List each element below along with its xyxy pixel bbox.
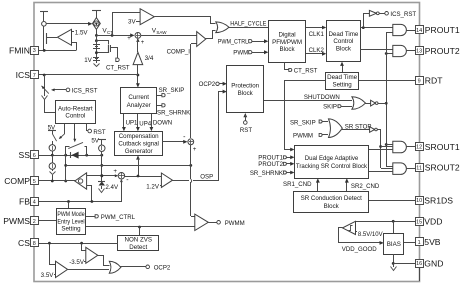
- svg-text:SR1DS: SR1DS: [424, 196, 453, 206]
- svg-text:16: 16: [416, 261, 422, 267]
- pin FB 4: [19, 197, 38, 207]
- wire SR1DS: [369, 200, 415, 202]
- wire 5VB: [404, 242, 415, 244]
- wire clamp chain: [100, 155, 103, 181]
- pad PROUT2 b: [258, 161, 294, 168]
- label CT_RST b: [294, 67, 318, 74]
- supply 5V b: [91, 138, 106, 145]
- block Dual Edge SR Control: [295, 146, 369, 179]
- pad ICS_RST a: [51, 88, 70, 92]
- wire G2 in2: [385, 52, 393, 55]
- block BIAS: [384, 234, 404, 255]
- svg-text:1.5V: 1.5V: [75, 29, 89, 36]
- label HALF_CYCLE: [230, 21, 266, 28]
- wire CT_RST gate: [117, 48, 119, 58]
- svg-text:OSP: OSP: [200, 174, 213, 181]
- svg-text:SR_SHRNK: SR_SHRNK: [157, 109, 190, 116]
- pin SS 6: [19, 150, 39, 160]
- svg-text:PROUT2: PROUT2: [258, 161, 283, 168]
- wire OCP2 out: [120, 265, 150, 269]
- or gate OR3: [329, 119, 343, 138]
- svg-text:ICS: ICS: [16, 70, 31, 80]
- svg-text:SS: SS: [19, 150, 31, 160]
- error amp A3: [75, 173, 87, 189]
- svg-text:SR_SHRNK: SR_SHRNK: [250, 170, 283, 177]
- pin GND 16: [416, 258, 444, 268]
- wire G4 out: [406, 168, 415, 170]
- svg-text:SR_SKIP: SR_SKIP: [290, 119, 316, 126]
- svg-text:OCP2: OCP2: [154, 264, 171, 271]
- pad PWM a: [233, 49, 268, 56]
- pad SR_SKIP a: [157, 94, 165, 97]
- block SR Conduction Detect: [294, 192, 369, 213]
- wire bias top: [393, 221, 395, 233]
- wire SS-COMP link: [64, 155, 67, 182]
- wire CT_RST stub: [285, 63, 292, 72]
- wire COMP_I trunk: [191, 44, 196, 217]
- svg-text:+: +: [127, 36, 131, 42]
- wire CLK2: [306, 52, 326, 56]
- svg-text:RDT: RDT: [425, 76, 443, 86]
- diode 2.4V D3: [98, 181, 105, 192]
- svg-text:Compensation: Compensation: [119, 133, 159, 140]
- wire to NONZVS: [139, 227, 141, 236]
- svg-text:5V: 5V: [91, 138, 99, 145]
- label V_CT: [102, 27, 113, 35]
- label VDD_GOOD: [342, 246, 377, 253]
- svg-text:Cutback signal: Cutback signal: [118, 140, 159, 147]
- svg-text:Block: Block: [279, 46, 295, 53]
- svg-text:FMIN: FMIN: [9, 46, 30, 56]
- IC boundary: [34, 3, 420, 282]
- svg-text:8: 8: [33, 241, 36, 247]
- pad PWM_CTRL b: [86, 215, 98, 218]
- svg-text:14: 14: [416, 28, 422, 34]
- svg-text:+: +: [193, 146, 197, 153]
- wire VSAW: [141, 35, 197, 37]
- comparator U4: [197, 32, 206, 47]
- label DOWN: [153, 120, 172, 127]
- svg-text:13: 13: [416, 49, 422, 55]
- current source I3: [99, 145, 105, 155]
- wire G3 in3: [368, 149, 393, 151]
- or gate OR2: [352, 97, 366, 110]
- svg-text:Protection: Protection: [231, 83, 259, 90]
- label RST a: [93, 129, 105, 136]
- svg-text:+: +: [141, 40, 145, 46]
- label 2.4V: [105, 184, 119, 191]
- block Compensation: [115, 132, 163, 156]
- wire CS to U7: [50, 244, 56, 265]
- block NON ZVS Detect: [118, 236, 159, 251]
- label UP4: [139, 121, 151, 128]
- svg-text:1: 1: [418, 240, 421, 246]
- wire VCT to 3V comp: [113, 13, 141, 36]
- pin PROUT1 14: [416, 25, 460, 35]
- wire ICS: [38, 74, 138, 77]
- wire pwm level: [86, 226, 195, 229]
- svg-text:UP4: UP4: [139, 121, 151, 128]
- wire U7 out: [68, 269, 109, 271]
- wire AR out2: [73, 124, 76, 142]
- switch ICS_RST S1: [42, 75, 49, 96]
- label V_SAW: [152, 28, 167, 36]
- diode D2: [71, 152, 79, 159]
- wire to auto-restart: [42, 96, 56, 113]
- supply 5V a: [48, 125, 56, 135]
- switch M_CT: [95, 39, 118, 53]
- label OSP: [200, 174, 213, 181]
- wire bias gnd: [392, 254, 415, 265]
- block Auto-Restart Control: [56, 101, 96, 124]
- wire 3V out: [155, 17, 216, 24]
- and gate G3: [393, 141, 407, 153]
- svg-text:CLK1: CLK1: [309, 31, 325, 38]
- wire RDT: [359, 80, 415, 82]
- svg-text:2.4V: 2.4V: [105, 184, 119, 191]
- label SR2_CND: [351, 183, 380, 190]
- pin ICS 7: [16, 70, 39, 80]
- label CLK1: [309, 31, 325, 38]
- wire I1 to SS: [52, 151, 54, 155]
- svg-text:Setting: Setting: [61, 226, 81, 233]
- wire CS to U6: [82, 244, 86, 251]
- label 3/4: [145, 55, 154, 62]
- svg-text:PWM_CTRL: PWM_CTRL: [101, 214, 136, 221]
- label SR1_CND: [283, 181, 312, 188]
- svg-text:SKIP: SKIP: [323, 103, 337, 110]
- svg-text:15: 15: [416, 219, 422, 225]
- svg-text:SROUT2: SROUT2: [425, 163, 460, 173]
- label 1V: [84, 57, 92, 64]
- wire SR1_CND: [316, 178, 320, 191]
- svg-text:Analyzer: Analyzer: [127, 102, 151, 109]
- supply rail bar 2: [92, 11, 101, 19]
- block Protection: [227, 66, 264, 113]
- wire FB to PWM box: [68, 202, 70, 208]
- svg-text:-3.5V: -3.5V: [69, 259, 85, 266]
- switch S2: [52, 134, 56, 145]
- wire G1 out: [406, 30, 415, 32]
- wire DOWN: [150, 114, 154, 131]
- svg-text:RST: RST: [240, 127, 252, 134]
- wire CS: [38, 242, 118, 245]
- wire srstop trunk: [379, 130, 393, 169]
- wire DTS up: [340, 62, 344, 72]
- summing node S0: [127, 33, 145, 46]
- wire HALF_CYCLE: [229, 27, 268, 29]
- svg-text:RST: RST: [93, 129, 105, 136]
- wire A1 feedback: [72, 43, 77, 51]
- transistor Q1: [44, 26, 58, 50]
- svg-text:10: 10: [416, 198, 422, 204]
- op-amp 1.5V A1: [57, 29, 74, 45]
- svg-text:2: 2: [33, 219, 36, 225]
- wire DTC out2: [360, 49, 393, 51]
- svg-text:5: 5: [33, 179, 36, 185]
- svg-text:9: 9: [418, 78, 421, 84]
- pin 5VB 1: [416, 237, 441, 247]
- pin PWMS 2: [3, 216, 38, 226]
- pin CS 8: [18, 238, 38, 248]
- pad RST b: [243, 113, 247, 124]
- label 3.5V: [41, 272, 55, 279]
- svg-text:Dead Time: Dead Time: [327, 74, 357, 81]
- pin SROUT2 11: [416, 163, 460, 173]
- label -3.5V: [69, 259, 85, 266]
- ground: [391, 263, 397, 271]
- wire UP1: [122, 114, 126, 131]
- svg-text:SHUTDOWN: SHUTDOWN: [304, 94, 340, 101]
- wire A3 top out: [87, 174, 118, 177]
- block Dead Time Control: [327, 21, 361, 62]
- wire UP4: [136, 114, 140, 131]
- svg-text:3: 3: [33, 48, 36, 54]
- svg-text:COMP: COMP: [4, 176, 30, 186]
- wire FB to S2: [120, 179, 123, 202]
- pin SROUT1 12: [416, 142, 460, 152]
- svg-text:1V: 1V: [84, 57, 92, 64]
- wire AR out3 RST: [87, 124, 92, 133]
- svg-text:Generator: Generator: [125, 148, 153, 155]
- svg-text:Block: Block: [336, 45, 352, 52]
- pin RDT 9: [416, 76, 444, 86]
- svg-text:4: 4: [33, 199, 36, 205]
- wire DTS left: [285, 81, 326, 152]
- wire FMIN: [38, 49, 76, 52]
- or gate OR1: [216, 22, 229, 33]
- wire G4 in3: [368, 171, 393, 173]
- and gate G1: [393, 24, 407, 35]
- wire OSP: [172, 90, 227, 181]
- svg-text:PFM/PWM: PFM/PWM: [272, 39, 302, 46]
- wire gate-enable trunk: [385, 33, 393, 167]
- inverter ICS_RST: [364, 10, 389, 27]
- svg-text:8.5V/10V: 8.5V/10V: [358, 232, 383, 238]
- svg-text:PWM: PWM: [233, 49, 248, 56]
- svg-text:UP1: UP1: [126, 120, 138, 127]
- svg-text:HALF_CYCLE: HALF_CYCLE: [230, 21, 266, 28]
- supply rail bar: [40, 12, 48, 22]
- label ICS_RST a: [72, 87, 98, 94]
- wire U4 out: [206, 31, 216, 39]
- current source I_CT: [93, 18, 101, 30]
- wire VDD_GOOD: [339, 228, 384, 245]
- svg-text:11: 11: [416, 165, 422, 171]
- block PWM Mode Entry: [57, 209, 86, 235]
- svg-text:SR1_CND: SR1_CND: [283, 181, 312, 188]
- pin VDD 15: [416, 217, 443, 227]
- pad PWM_CTRL a: [218, 38, 269, 45]
- svg-text:VDD_GOOD: VDD_GOOD: [342, 246, 377, 253]
- block Digital PFM/PWM: [269, 21, 306, 63]
- label SR_SKIP a: [159, 87, 185, 94]
- switch S3: [66, 142, 87, 155]
- svg-text:CT_RST: CT_RST: [294, 67, 318, 74]
- svg-text:Setting: Setting: [332, 82, 352, 89]
- wire SHUTDOWN: [264, 100, 352, 102]
- comparator -3.5V U6: [84, 247, 98, 263]
- svg-text:SR_SKIP: SR_SKIP: [159, 87, 185, 94]
- pin FMIN 3: [9, 46, 39, 56]
- summing node S2: [113, 168, 129, 184]
- pin SR1DS 10: [416, 196, 454, 206]
- comparator 3.5V U7: [54, 261, 68, 277]
- svg-text:7: 7: [33, 73, 36, 79]
- pad SR_SHRNK a: [157, 104, 165, 107]
- svg-text:6: 6: [33, 153, 36, 159]
- svg-text:VDD: VDD: [424, 217, 442, 227]
- wire GND down: [419, 267, 421, 281]
- wire AR out1: [59, 124, 65, 139]
- wire FB: [38, 200, 121, 203]
- pin PROUT2 13: [416, 46, 460, 56]
- svg-text:PWMM: PWMM: [293, 133, 313, 140]
- wire G2 out: [406, 50, 415, 52]
- svg-text:Block: Block: [238, 90, 254, 97]
- svg-text:5VB: 5VB: [424, 237, 441, 247]
- block Current Analyzer: [121, 88, 157, 114]
- pad OCP2 a: [199, 81, 227, 88]
- svg-text:Current: Current: [128, 94, 149, 101]
- svg-text:Block: Block: [324, 203, 340, 210]
- label CT_RST: [106, 64, 130, 71]
- svg-text:NON ZVS: NON ZVS: [124, 237, 152, 244]
- svg-text:+: +: [113, 168, 117, 175]
- pad PWMM b: [293, 133, 328, 140]
- svg-text:DOWN: DOWN: [153, 120, 172, 127]
- wire G3 out: [406, 146, 415, 148]
- svg-text:Entry Level: Entry Level: [57, 218, 84, 225]
- current mirror M1: [42, 22, 47, 27]
- svg-text:PWMM: PWMM: [225, 220, 245, 227]
- comparator 1.2V U3: [160, 173, 173, 187]
- wire trunk to comp: [191, 43, 197, 45]
- wire COMP feed: [66, 164, 192, 167]
- pad PROUT1 b: [258, 155, 294, 162]
- svg-text:COMP_I: COMP_I: [167, 49, 191, 56]
- and gate G4: [393, 163, 407, 175]
- wire VCT stem: [95, 29, 98, 37]
- svg-text:Dual Edge Adaptive: Dual Edge Adaptive: [305, 155, 359, 162]
- svg-text:3V: 3V: [128, 18, 136, 25]
- svg-text:GND: GND: [424, 258, 443, 268]
- svg-text:ICS_RST: ICS_RST: [390, 11, 416, 18]
- current source I2: [49, 155, 55, 181]
- summing node S1: [183, 134, 197, 153]
- wire 3/4 to ICS: [136, 65, 140, 88]
- wire G3 in2: [381, 146, 393, 148]
- label COMP_I: [167, 49, 191, 56]
- svg-text:12: 12: [416, 145, 422, 151]
- wire S2 out: [125, 176, 161, 178]
- svg-text:Control: Control: [65, 113, 85, 120]
- svg-text:Detect: Detect: [129, 244, 147, 251]
- label RST b: [240, 127, 252, 134]
- pad SR_SHRNK b: [250, 170, 295, 177]
- label UP1: [126, 120, 138, 127]
- svg-text:SR2_CND: SR2_CND: [351, 183, 380, 190]
- svg-text:1.2V: 1.2V: [146, 184, 160, 191]
- svg-text:Digital: Digital: [278, 32, 295, 39]
- wire comp out: [162, 140, 188, 144]
- label 1.2V: [146, 184, 160, 191]
- svg-text:CS: CS: [18, 238, 30, 248]
- wire CLK1: [306, 26, 326, 30]
- wire VDD: [356, 220, 415, 223]
- svg-text:Control: Control: [333, 38, 353, 45]
- label 3V: [128, 18, 136, 25]
- label PWM_CTRL b: [101, 214, 136, 221]
- svg-text:PWM_CTRL: PWM_CTRL: [218, 38, 249, 45]
- inverter N3: [342, 127, 381, 133]
- svg-text:SAW: SAW: [156, 30, 167, 35]
- label 8.5V/10V: [358, 232, 383, 238]
- comparator wire S2-U3 junction: [137, 175, 140, 178]
- svg-text:CT_RST: CT_RST: [106, 64, 130, 71]
- wire DTC out1: [360, 26, 393, 29]
- ground arrow VCT: [94, 61, 100, 67]
- zener 1V D1: [93, 35, 100, 61]
- comparator PWMM U5: [195, 214, 209, 230]
- label OCP2 b: [154, 264, 171, 271]
- pad SKIP: [323, 103, 352, 110]
- amp 3/4 A2: [133, 39, 143, 65]
- svg-text:OCP2: OCP2: [199, 81, 216, 88]
- label SR_SHRNK a: [157, 109, 190, 116]
- wire VCT to sum: [96, 33, 135, 37]
- svg-text:SROUT1: SROUT1: [425, 142, 460, 152]
- svg-text:ICS_RST: ICS_RST: [72, 87, 98, 94]
- svg-text:PWMS: PWMS: [3, 216, 30, 226]
- wire COMP: [38, 180, 75, 183]
- label ICS_RST b: [390, 11, 416, 18]
- svg-text:CLK2: CLK2: [309, 47, 325, 54]
- svg-text:3/4: 3/4: [145, 55, 154, 62]
- wire PWMS: [38, 220, 56, 222]
- svg-text:PWM Mode: PWM Mode: [57, 211, 85, 218]
- label CLK2: [309, 47, 325, 54]
- comparator 3V U2: [136, 9, 154, 25]
- wire U6 out: [98, 256, 110, 266]
- svg-text:PROUT2: PROUT2: [425, 46, 460, 56]
- current source I1: [49, 145, 55, 151]
- label SHUTDOWN: [304, 94, 340, 101]
- label SR STOP: [345, 124, 372, 131]
- svg-text:SR Conduction Detect: SR Conduction Detect: [301, 195, 363, 202]
- wire G3 in1: [386, 144, 393, 146]
- svg-text:Tracking SR Control Block: Tracking SR Control Block: [296, 163, 368, 170]
- label 1.5V: [75, 29, 89, 36]
- svg-text:BIAS: BIAS: [387, 241, 401, 248]
- pad SR_SKIP b: [290, 119, 328, 126]
- wire A3 bottom out: [87, 186, 92, 202]
- block Dead Time Setting: [326, 73, 359, 90]
- svg-text:FB: FB: [19, 197, 30, 207]
- pin COMP 5: [4, 176, 38, 186]
- svg-text:PROUT1: PROUT1: [425, 25, 460, 35]
- wire SR2_CND: [345, 178, 349, 191]
- or gate OR4: [109, 261, 121, 273]
- and gate G2: [393, 45, 407, 56]
- svg-text:Dead Time: Dead Time: [328, 31, 358, 38]
- svg-text:3.5V: 3.5V: [41, 272, 55, 279]
- inverter N2: [365, 100, 386, 106]
- pad CT_RST: [116, 58, 119, 61]
- comparator VDD_GOOD U8: [343, 221, 358, 234]
- pad PWMM a: [208, 221, 220, 225]
- wire comp bottom feed: [136, 155, 140, 176]
